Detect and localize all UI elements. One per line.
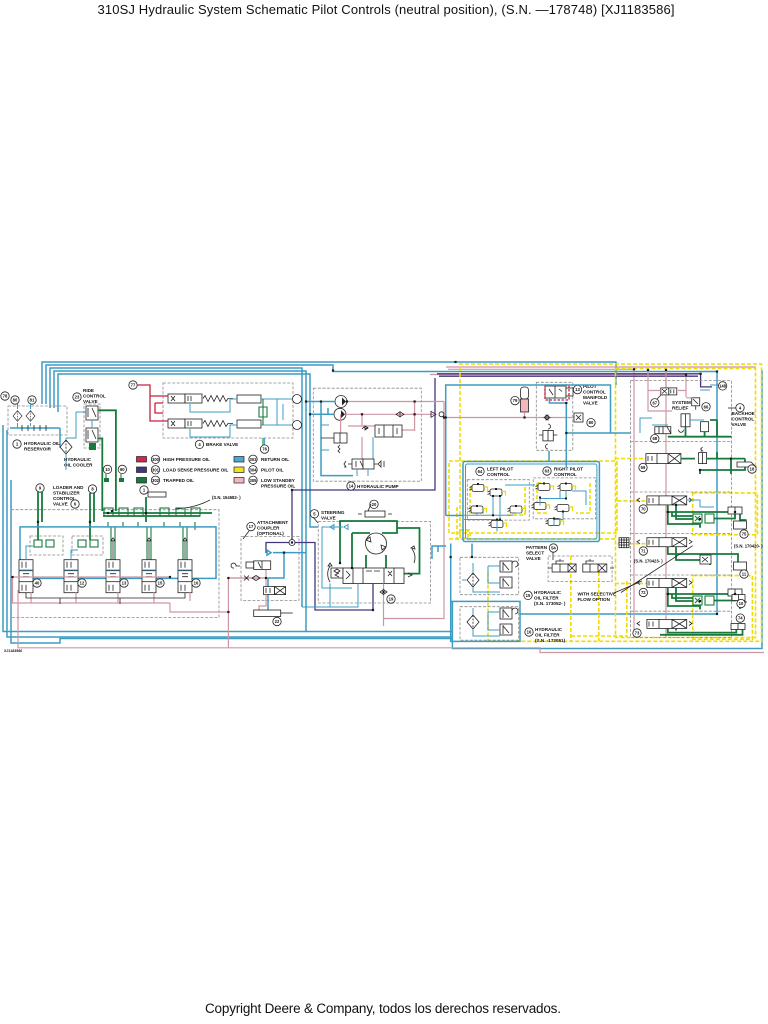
svg-text:HYDRAULIC OIL: HYDRAULIC OIL xyxy=(24,441,60,446)
svg-text:10: 10 xyxy=(105,467,110,472)
svg-text:(S.N. 154682- ): (S.N. 154682- ) xyxy=(212,495,241,500)
svg-text:80: 80 xyxy=(589,420,594,425)
svg-text:CONTROL: CONTROL xyxy=(83,394,106,399)
svg-text:40: 40 xyxy=(35,581,40,586)
svg-text:66: 66 xyxy=(704,404,709,409)
svg-text:CONTROL: CONTROL xyxy=(487,472,510,477)
svg-text:81: 81 xyxy=(30,398,35,403)
svg-text:80: 80 xyxy=(13,398,18,403)
svg-text:13: 13 xyxy=(575,387,580,392)
svg-text:WITH SELECTIVE: WITH SELECTIVE xyxy=(578,592,617,597)
svg-text:RIGHT PILOT: RIGHT PILOT xyxy=(554,467,583,472)
svg-text:(S.N. 170423- ): (S.N. 170423- ) xyxy=(634,559,663,564)
svg-text:148: 148 xyxy=(719,383,727,388)
svg-text:301: 301 xyxy=(152,467,160,472)
svg-text:VALVE: VALVE xyxy=(321,516,336,521)
svg-text:77: 77 xyxy=(131,383,136,388)
svg-text:305: 305 xyxy=(250,478,258,483)
svg-text:22: 22 xyxy=(275,619,280,624)
svg-text:FLOW OPTION: FLOW OPTION xyxy=(578,597,611,602)
svg-text:HYDRAULIC: HYDRAULIC xyxy=(535,627,563,632)
svg-text:CONTROL: CONTROL xyxy=(732,417,755,422)
svg-text:LOAD SENSE PRESSURE OIL: LOAD SENSE PRESSURE OIL xyxy=(163,468,229,473)
svg-text:10: 10 xyxy=(739,601,744,606)
svg-text:OIL FILTER: OIL FILTER xyxy=(534,596,559,601)
svg-text:OIL COOLER: OIL COOLER xyxy=(64,463,93,468)
svg-text:(S.N. -173051): (S.N. -173051) xyxy=(535,638,566,643)
svg-text:Copyright Deere & Company, tod: Copyright Deere & Company, todos los der… xyxy=(205,1001,561,1016)
svg-text:(S.N. 170420- ): (S.N. 170420- ) xyxy=(734,544,763,549)
svg-text:STEERING: STEERING xyxy=(321,510,345,515)
svg-text:BRAKE VALVE: BRAKE VALVE xyxy=(206,442,238,447)
svg-text:70: 70 xyxy=(641,507,646,512)
svg-text:PATTERN: PATTERN xyxy=(526,545,548,550)
svg-text:STABILIZER: STABILIZER xyxy=(53,491,80,496)
svg-text:302: 302 xyxy=(152,478,160,483)
svg-text:72: 72 xyxy=(641,590,646,595)
svg-text:310SJ Hydraulic System Schemat: 310SJ Hydraulic System Schematic Pilot C… xyxy=(98,2,675,17)
svg-text:ATTACHMENT: ATTACHMENT xyxy=(257,520,288,525)
svg-text:15: 15 xyxy=(158,581,163,586)
svg-text:23: 23 xyxy=(75,395,80,400)
svg-text:20: 20 xyxy=(372,502,377,507)
svg-text:63: 63 xyxy=(545,469,550,474)
svg-text:14: 14 xyxy=(349,484,354,489)
svg-text:RETURN OIL: RETURN OIL xyxy=(261,457,289,462)
svg-text:OIL FILTER: OIL FILTER xyxy=(535,633,560,638)
svg-text:64: 64 xyxy=(478,469,483,474)
svg-text:PRESSURE OIL: PRESSURE OIL xyxy=(261,484,295,489)
svg-text:18: 18 xyxy=(750,467,755,472)
svg-text:VALVE: VALVE xyxy=(83,399,98,404)
svg-text:304: 304 xyxy=(250,467,258,472)
svg-text:300: 300 xyxy=(152,457,160,462)
svg-text:69: 69 xyxy=(641,465,646,470)
svg-text:BACKHOE: BACKHOE xyxy=(732,411,755,416)
svg-text:54: 54 xyxy=(551,546,556,551)
svg-text:VALVE: VALVE xyxy=(53,502,68,507)
svg-text:XJ1183586: XJ1183586 xyxy=(4,649,22,653)
svg-text:VALVE: VALVE xyxy=(526,556,541,561)
svg-text:MANIFOLD: MANIFOLD xyxy=(583,395,608,400)
svg-text:(S.N. 173052- ): (S.N. 173052- ) xyxy=(534,601,566,606)
svg-text:(OPTIONAL): (OPTIONAL) xyxy=(257,531,284,536)
svg-text:71: 71 xyxy=(641,549,646,554)
svg-text:HYDRAULIC: HYDRAULIC xyxy=(64,457,92,462)
svg-text:TRAPPED OIL: TRAPPED OIL xyxy=(163,478,194,483)
svg-text:LEFT PILOT: LEFT PILOT xyxy=(487,467,513,472)
svg-text:LOW STANDBY: LOW STANDBY xyxy=(261,478,295,483)
svg-text:15: 15 xyxy=(526,593,531,598)
svg-text:RESERVOIR: RESERVOIR xyxy=(24,447,52,452)
svg-text:12: 12 xyxy=(80,581,85,586)
svg-text:67: 67 xyxy=(652,400,657,405)
svg-text:79: 79 xyxy=(513,398,518,403)
svg-text:SELECT: SELECT xyxy=(526,551,544,556)
svg-text:HIGH PRESSURE OIL: HIGH PRESSURE OIL xyxy=(163,457,210,462)
svg-text:68: 68 xyxy=(652,436,657,441)
svg-text:RIDE: RIDE xyxy=(83,388,94,393)
svg-text:60: 60 xyxy=(120,467,125,472)
svg-text:78: 78 xyxy=(3,394,8,399)
svg-text:303: 303 xyxy=(250,457,258,462)
svg-text:LOADER AND: LOADER AND xyxy=(53,485,84,490)
svg-text:VALVE: VALVE xyxy=(583,401,598,406)
svg-text:COUPLER: COUPLER xyxy=(257,526,280,531)
svg-text:SYSTEM: SYSTEM xyxy=(672,400,691,405)
svg-text:RELIEF: RELIEF xyxy=(672,406,689,411)
svg-text:75: 75 xyxy=(742,532,747,537)
svg-text:PILOT OIL: PILOT OIL xyxy=(261,468,284,473)
svg-text:CONTROL: CONTROL xyxy=(583,390,606,395)
svg-text:16: 16 xyxy=(527,630,532,635)
svg-text:73: 73 xyxy=(635,631,640,636)
svg-text:VALVE: VALVE xyxy=(732,422,747,427)
svg-text:17: 17 xyxy=(249,524,254,529)
svg-text:11: 11 xyxy=(742,572,747,577)
svg-text:74: 74 xyxy=(738,616,743,621)
svg-text:76: 76 xyxy=(262,447,267,452)
svg-text:16: 16 xyxy=(194,581,199,586)
svg-text:19: 19 xyxy=(389,597,394,602)
svg-text:HYDRAULIC PUMP: HYDRAULIC PUMP xyxy=(357,484,399,489)
svg-text:13: 13 xyxy=(122,581,127,586)
svg-text:CONTROL: CONTROL xyxy=(554,472,577,477)
svg-text:HYDRAULIC: HYDRAULIC xyxy=(534,590,562,595)
